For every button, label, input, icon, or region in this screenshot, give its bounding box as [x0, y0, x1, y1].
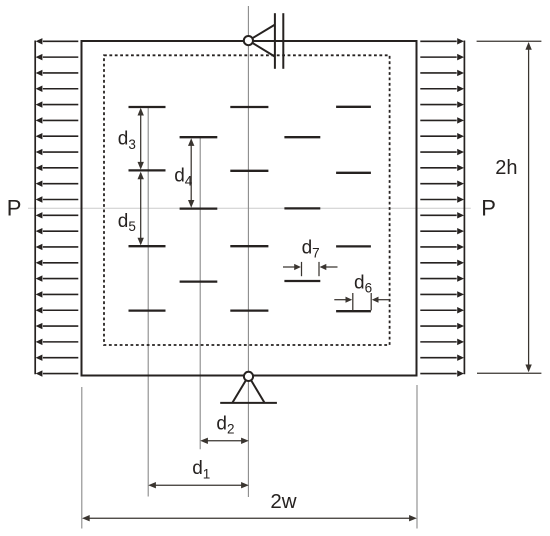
- svg-text:2: 2: [227, 422, 235, 437]
- extension line top for 2h: [477, 40, 542, 42]
- svg-text:d: d: [174, 165, 185, 186]
- svg-text:3: 3: [128, 137, 136, 152]
- extension line right for 2w: [416, 385, 418, 529]
- extension line bottom for 2h: [477, 372, 541, 374]
- svg-text:2w: 2w: [270, 490, 296, 513]
- dimension arrow d5: [140, 173, 142, 244]
- crack column2 row4: [180, 207, 218, 209]
- dotted inner boundary rectangle: [104, 55, 390, 345]
- center vertical axis line through supports: [247, 6, 249, 497]
- crack column5 row5: [336, 245, 371, 247]
- extension line for d2 through crack column 2: [199, 137, 201, 449]
- top roller support triangle sides: [252, 25, 275, 57]
- crack column4 row6: [284, 280, 320, 282]
- bottom support pin circle: [244, 372, 253, 381]
- dimension arrow d1: [150, 484, 248, 486]
- crack column5 row7: [336, 310, 371, 312]
- crack column3 row5: [230, 245, 268, 247]
- svg-text:2h: 2h: [495, 157, 517, 179]
- crack column1 row1: [129, 106, 166, 108]
- dimension arrow 2w: [84, 517, 416, 519]
- right load arrow tips line: [463, 41, 465, 375]
- dimension arrow 2h: [528, 44, 530, 371]
- svg-text:d: d: [192, 458, 203, 479]
- extension line for d1 through crack column 1: [147, 107, 149, 497]
- horizontal mid axis line: [28, 207, 471, 209]
- crack column5 row3: [336, 172, 371, 174]
- crack column2 row2: [180, 136, 218, 138]
- dimension arrow d4: [190, 140, 192, 207]
- svg-text:d: d: [118, 211, 129, 232]
- left load arrow tips line: [34, 41, 36, 375]
- crack column2 row6: [180, 280, 218, 282]
- dimension arrow d3: [140, 109, 142, 168]
- top roller support base line: [274, 13, 276, 69]
- svg-text:d: d: [118, 129, 129, 150]
- svg-text:d: d: [216, 413, 227, 434]
- dimension arrow d2: [202, 440, 248, 442]
- svg-text:1: 1: [203, 466, 211, 481]
- bottom pin support triangle sides: [232, 380, 264, 403]
- crack column4 row2: [284, 136, 320, 138]
- plate outline rectangle: [82, 41, 417, 376]
- bottom pin support ground line: [220, 402, 277, 404]
- crack column3 row7: [230, 309, 268, 311]
- svg-text:4: 4: [185, 174, 193, 189]
- svg-text:P: P: [7, 196, 22, 221]
- extension line left for 2w: [81, 387, 83, 529]
- crack column5 row1: [336, 106, 371, 108]
- svg-text:d: d: [302, 237, 313, 258]
- crack column3 row1: [230, 106, 268, 108]
- distributed load P arrows on left edge: [36, 38, 79, 377]
- top support pin circle: [244, 36, 253, 45]
- dimension arrows d6 half crack length: [352, 293, 354, 310]
- crack column1 row7: [129, 309, 166, 311]
- crack column1 row3: [129, 169, 166, 171]
- svg-text:d: d: [354, 272, 365, 293]
- svg-text:P: P: [481, 196, 496, 221]
- dimension arrows d7 half crack length: [301, 262, 303, 276]
- crack column1 row5: [129, 245, 166, 247]
- svg-text:7: 7: [312, 246, 320, 261]
- svg-text:5: 5: [128, 219, 136, 234]
- top roller support roller line: [282, 13, 284, 69]
- crack column3 row3: [230, 170, 268, 172]
- distributed load P arrows on right edge: [420, 38, 464, 377]
- crack column4 row4: [284, 207, 320, 209]
- svg-text:6: 6: [365, 281, 373, 296]
